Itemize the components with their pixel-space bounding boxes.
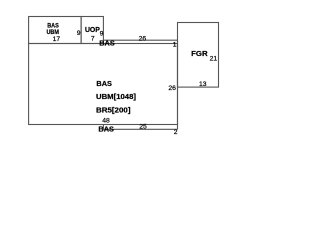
svg-text:BAS: BAS xyxy=(99,41,115,48)
svg-text:26: 26 xyxy=(168,85,176,92)
svg-text:7: 7 xyxy=(91,36,95,43)
svg-text:BAS: BAS xyxy=(96,81,112,88)
svg-text:21: 21 xyxy=(210,55,218,62)
svg-text:17: 17 xyxy=(53,36,61,43)
section box FGR garage (13x21) xyxy=(178,23,219,88)
svg-text:13: 13 xyxy=(199,81,207,88)
main section rect UBM (48x26) xyxy=(29,44,178,125)
BAS outline right edge xyxy=(177,40,179,129)
svg-text:48: 48 xyxy=(102,118,110,125)
svg-text:FGR: FGR xyxy=(191,51,208,58)
svg-text:1: 1 xyxy=(173,41,177,48)
svg-text:BAS: BAS xyxy=(98,126,114,133)
svg-text:UOP: UOP xyxy=(85,27,100,34)
BAS outline bottom jog vertical xyxy=(102,125,104,130)
BAS outline bottom edge (25 ft) xyxy=(103,128,177,130)
svg-text:UBM[1048]: UBM[1048] xyxy=(96,94,136,101)
svg-text:2: 2 xyxy=(174,129,178,136)
svg-text:9: 9 xyxy=(77,30,81,37)
svg-text:25: 25 xyxy=(139,123,147,130)
BAS outline top edge (26 ft) xyxy=(103,39,177,41)
section box UOP (7x9) xyxy=(81,17,103,44)
svg-text:BR5[200]: BR5[200] xyxy=(96,108,131,115)
svg-text:9: 9 xyxy=(100,30,104,37)
section box BAS/UBM porch (17x9) xyxy=(29,17,82,44)
svg-text:UBM: UBM xyxy=(46,29,59,36)
svg-text:26: 26 xyxy=(139,36,147,43)
BAS outline top jog vertical xyxy=(102,40,104,43)
